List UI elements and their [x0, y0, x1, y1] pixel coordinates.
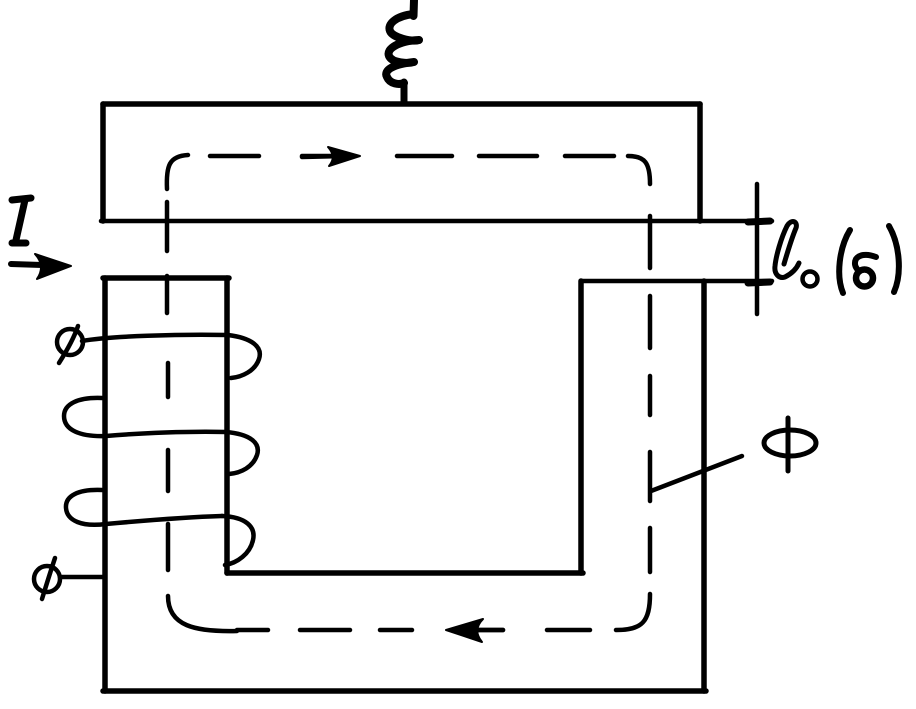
flux arrow right (top)	[302, 147, 360, 166]
flux path corner top-right	[628, 156, 650, 184]
label l0(delta) open paren	[839, 230, 850, 293]
coil left arc 2	[66, 490, 106, 525]
coil right arc 2	[226, 432, 258, 474]
air gap bottom face (right leg top edge, extended right)	[581, 279, 772, 284]
flux arrow left (bottom)	[446, 619, 503, 642]
flux path corner bottom-left	[168, 596, 237, 631]
coil wire turn 3 crossing	[106, 516, 222, 524]
spring	[386, 14, 419, 84]
flux path corner top-left	[167, 155, 188, 189]
coil right arc 3	[222, 516, 254, 565]
spring lead bottom	[401, 82, 408, 103]
air gap dimension line	[748, 184, 770, 314]
flux path dashed top	[210, 154, 614, 159]
coil left arc 1	[64, 398, 106, 436]
label l0(delta) close paren	[889, 226, 899, 292]
coil right arc 1	[228, 335, 260, 378]
air gap top face (bar bottom edge, extended right)	[101, 219, 772, 224]
flux leader line	[651, 456, 742, 491]
core window inner bottom edge	[227, 570, 583, 576]
coil terminal phi top	[57, 326, 83, 363]
label l0(delta) subscript o	[803, 272, 818, 287]
core left leg inner edge	[224, 278, 230, 573]
core outer bottom edge	[103, 688, 706, 694]
flux path corner bottom-right	[616, 594, 650, 630]
coil bottom lead wire	[60, 575, 104, 580]
label I	[12, 198, 31, 243]
flux path dashed right	[648, 216, 653, 572]
coil wire turn 2 crossing	[106, 432, 226, 436]
label l0(delta) delta	[855, 255, 876, 287]
core U-shape left leg top edge	[103, 275, 229, 281]
armature top bar	[103, 104, 700, 221]
flux path dashed bottom	[237, 628, 590, 633]
core outer right edge	[701, 281, 707, 691]
coil terminal phi bottom	[34, 558, 60, 599]
flux path dashed left	[167, 202, 168, 570]
coil wire turn 1 crossing	[82, 335, 228, 341]
label Phi (flux)	[764, 418, 816, 471]
current arrow	[11, 254, 71, 279]
spring lead top	[410, 0, 419, 16]
core outer left edge	[102, 278, 108, 691]
label l0(delta) script l	[775, 222, 799, 278]
core right leg inner edge	[578, 281, 584, 573]
